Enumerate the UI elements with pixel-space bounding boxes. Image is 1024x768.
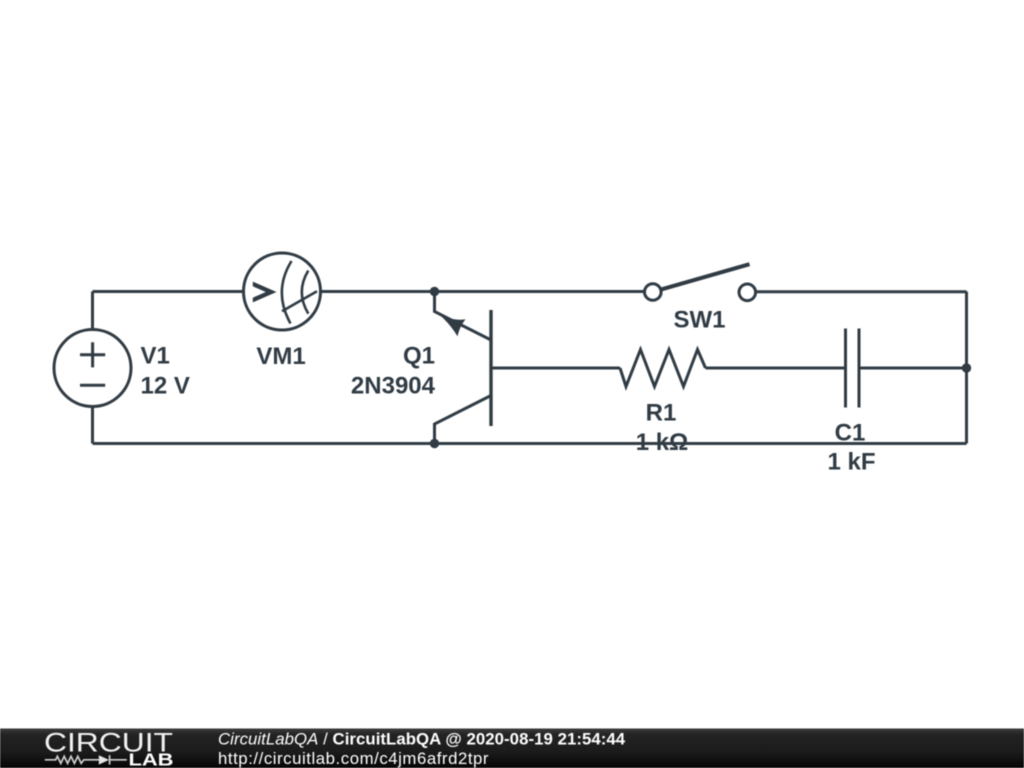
svg-text:CircuitLabQA / CircuitLabQA @: CircuitLabQA / CircuitLabQA @ 2020-08-19…	[218, 730, 626, 749]
svg-text:R1: R1	[646, 400, 677, 427]
wire node A to SW1	[435, 290, 645, 293]
resistor R1	[620, 350, 706, 387]
svg-text:12 V: 12 V	[141, 373, 190, 400]
svg-text:V1: V1	[141, 343, 170, 370]
node C (right junction)	[962, 363, 971, 372]
node B (bottom junction)	[430, 439, 439, 448]
switch SW1	[645, 264, 756, 300]
wire VM1 to node A	[321, 290, 435, 293]
svg-text:1 kF: 1 kF	[827, 449, 875, 476]
transistor Q1	[435, 292, 492, 444]
svg-text:LAB: LAB	[129, 750, 174, 768]
voltmeter VM1	[244, 253, 321, 330]
svg-text:SW1: SW1	[673, 307, 725, 334]
wire R1 to C1	[706, 367, 846, 370]
svg-text:http://circuitlab.com/c4jm6afr: http://circuitlab.com/c4jm6afrd2tpr	[218, 749, 489, 768]
wire left vertical upper	[91, 292, 94, 330]
svg-text:1 kΩ: 1 kΩ	[636, 429, 689, 456]
wire top-left (V1 to VM1)	[93, 290, 244, 293]
wire bottom	[93, 442, 967, 445]
footer bar	[0, 729, 1024, 768]
logo resistor-diode squiggle	[45, 755, 127, 764]
wire SW1 to top-right corner	[756, 290, 967, 293]
voltage source V1	[54, 330, 131, 407]
wire left vertical lower	[91, 407, 94, 444]
wire right vertical	[965, 292, 968, 444]
svg-text:2N3904: 2N3904	[351, 373, 436, 400]
node A (top junction)	[430, 287, 439, 296]
svg-text:C1: C1	[835, 420, 866, 447]
svg-text:VM1: VM1	[256, 343, 305, 370]
wire C1 to right vertical	[859, 367, 967, 370]
capacitor C1	[846, 329, 860, 408]
wire Q1 base to R1	[491, 367, 620, 370]
svg-text:Q1: Q1	[403, 343, 435, 370]
